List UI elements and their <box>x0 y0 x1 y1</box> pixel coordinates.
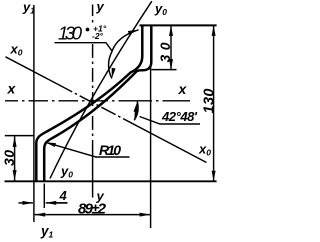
svg-text:R10: R10 <box>99 142 121 158</box>
svg-text:x: x <box>178 81 188 97</box>
svg-text:42°48': 42°48' <box>161 109 198 124</box>
svg-text:x: x <box>7 81 17 97</box>
svg-text:-2°: -2° <box>92 31 104 41</box>
svg-text:4: 4 <box>59 188 68 203</box>
svg-text:89±2: 89±2 <box>78 201 107 218</box>
svg-text:y: y <box>96 0 105 14</box>
svg-text:30: 30 <box>1 150 17 166</box>
svg-text:130: 130 <box>58 23 83 44</box>
svg-text:130: 130 <box>201 89 217 114</box>
